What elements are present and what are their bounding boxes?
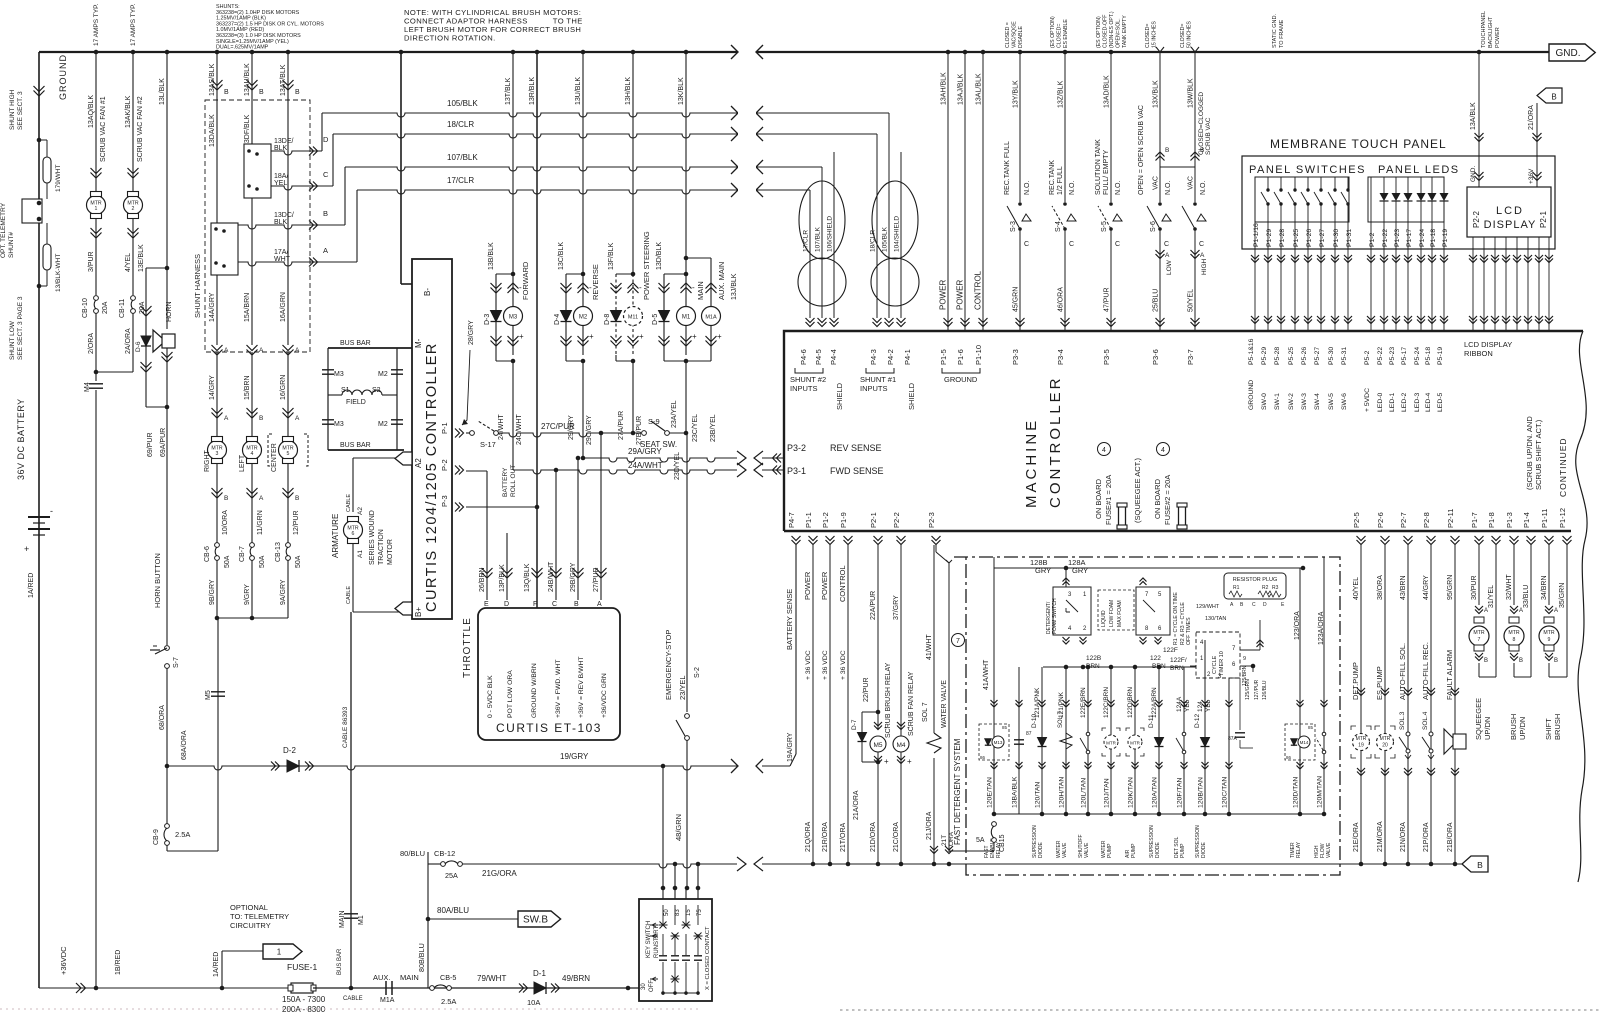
svg-text:A: A (1554, 608, 1558, 614)
svg-text:LEFT: LEFT (239, 454, 246, 472)
svg-text:M3: M3 (334, 421, 344, 428)
circuit breaker CB-10 (94, 296, 99, 301)
svg-text:69A/PUR: 69A/PUR (160, 428, 167, 457)
svg-text:P2-5: P2-5 (1352, 512, 1361, 528)
svg-text:1B/RED: 1B/RED (115, 950, 122, 975)
svg-text:GRY: GRY (1072, 566, 1088, 575)
svg-text:13K/BLK: 13K/BLK (678, 77, 685, 105)
svg-text:122F/: 122F/ (1170, 657, 1187, 664)
svg-text:M13: M13 (994, 740, 1003, 745)
svg-text:CLOSED=CLOGGED: CLOSED=CLOGGED (1198, 92, 1205, 155)
svg-text:+36V = REV B/WHT: +36V = REV B/WHT (578, 656, 585, 718)
svg-text:38/ORA: 38/ORA (1377, 575, 1384, 600)
svg-text:29A/GRY: 29A/GRY (628, 447, 662, 456)
svg-text:-: - (907, 723, 910, 732)
bracket SHUNT #2 INPUTS (795, 368, 823, 373)
motor M2 (582, 274, 584, 355)
motor MTR|5 CENTER (279, 441, 298, 460)
wire 13DE/BLK to D (271, 151, 322, 155)
svg-text:14/GRY: 14/GRY (209, 375, 216, 400)
svg-text:B: B (1519, 658, 1523, 664)
svg-text:35/GRN: 35/GRN (1559, 583, 1566, 608)
svg-text:13W/BLK: 13W/BLK (1188, 78, 1195, 108)
wire vac switch link (1160, 166, 1195, 168)
wire 44/GRY AUTO-FILL REC. (1430, 545, 1432, 864)
svg-text:SHIELD: SHIELD (835, 382, 844, 410)
telemetry arrow terminal 1 (221, 951, 223, 988)
svg-text:A: A (295, 415, 300, 422)
svg-text:A1: A1 (357, 550, 364, 558)
svg-text:STATIC GND.: STATIC GND. (1272, 14, 1278, 48)
svg-text:DIODE: DIODE (1155, 842, 1161, 859)
wire 41/WHT water valve (933, 545, 935, 733)
svg-text:S-7: S-7 (173, 657, 180, 668)
switch S vac lever (1193, 202, 1197, 206)
wire 13U/BLK (581, 50, 586, 55)
svg-text:122E/BRN: 122E/BRN (1080, 687, 1087, 718)
svg-text:P1-23: P1-23 (1394, 229, 1401, 247)
svg-text:LED-1: LED-1 (1389, 393, 1396, 412)
relay coil M4 (897, 722, 905, 726)
svg-text:GROUND: GROUND (1248, 380, 1255, 410)
svg-text:P5-28: P5-28 (1274, 347, 1281, 365)
svg-text:13X/BLK: 13X/BLK (1153, 80, 1160, 108)
svg-text:44/GRY: 44/GRY (1423, 575, 1430, 600)
svg-text:LED-4: LED-4 (1425, 393, 1432, 412)
wire 106/SHIELD shield (833, 152, 835, 318)
wire 107/BLK horizontal (344, 167, 346, 225)
svg-text:P5-19: P5-19 (1437, 347, 1444, 365)
svg-text:D-4: D-4 (554, 314, 561, 325)
bus bar right rail (396, 348, 398, 450)
diode D-6 (141, 336, 151, 346)
svg-text:21N/ORA: 21N/ORA (1400, 822, 1407, 852)
svg-text:13L/BLK: 13L/BLK (159, 78, 166, 105)
svg-text:PANEL LEDS: PANEL LEDS (1378, 164, 1460, 176)
svg-text:OPEN=SOL.: OPEN=SOL. (1116, 18, 1122, 48)
motor MTR|7 pair 30/PUR/31/YEL (1478, 545, 1480, 605)
svg-text:SW.B: SW.B (523, 915, 548, 926)
note circled 7 (952, 634, 965, 647)
fast detergent component 120K/TAN (1134, 667, 1136, 814)
svg-text:A: A (224, 347, 229, 354)
svg-text:SHIELD: SHIELD (907, 382, 916, 410)
svg-text:16A/GRN: 16A/GRN (280, 292, 287, 322)
svg-text:M4: M4 (84, 382, 91, 392)
svg-text:69/PUR: 69/PUR (147, 432, 154, 457)
svg-text:CURTIS ET-103: CURTIS ET-103 (496, 721, 602, 735)
svg-text:POWER: POWER (956, 280, 965, 310)
lcd ribbon wires down (1472, 237, 1474, 331)
wire M1A coil 13J/BLK (686, 257, 711, 259)
fast detergent component 120L/TAN (1087, 667, 1089, 814)
svg-text:5: 5 (287, 451, 290, 457)
telemetry shunt box (46, 183, 48, 199)
svg-text:13U/BLK: 13U/BLK (575, 77, 582, 105)
svg-text:123A/ORA: 123A/ORA (1318, 611, 1325, 645)
svg-text:ON BOARD: ON BOARD (1153, 478, 1162, 519)
diode D-8 (611, 311, 622, 322)
svg-text:S-9: S-9 (648, 417, 660, 426)
svg-text:A: A (224, 415, 229, 422)
svg-text:13/BLK-WHT: 13/BLK-WHT (55, 254, 62, 292)
svg-text:5A: 5A (976, 837, 985, 844)
svg-text:CABLE: CABLE (346, 494, 352, 512)
svg-text:P1-7: P1-7 (1470, 512, 1479, 528)
svg-text:D: D (504, 601, 509, 608)
svg-text:KEY SWITCH: KEY SWITCH (646, 921, 652, 958)
wire 13H/BLK (631, 50, 636, 55)
svg-text:B: B (224, 495, 228, 502)
wire 16/GRN brush motor (287, 352, 289, 438)
svg-text:FAST DETERGENT SYSTEM: FAST DETERGENT SYSTEM (953, 738, 962, 845)
svg-text:SCRUB VAC: SCRUB VAC (1205, 117, 1212, 155)
svg-text:+36V: +36V (1528, 168, 1535, 184)
svg-text:R2: R2 (1262, 585, 1269, 591)
svg-text:CB-11: CB-11 (119, 299, 126, 318)
fast detergent component 13BA/BLK (1018, 667, 1020, 814)
switch S-17 battery roll out (470, 431, 475, 436)
wire 47/PUR (1110, 229, 1112, 330)
motor M3 (512, 274, 514, 355)
svg-text:S-17: S-17 (480, 440, 496, 449)
svg-text:MAX FOAM: MAX FOAM (1117, 600, 1123, 627)
svg-text:13AQ/BLK: 13AQ/BLK (88, 95, 95, 128)
svg-text:+: + (907, 757, 912, 766)
svg-text:D-11: D-11 (1148, 714, 1155, 728)
detergent/foam switch 2 (1136, 587, 1170, 635)
svg-text:MACHINE: MACHINE (1023, 418, 1040, 508)
svg-text:P3-3: P3-3 (1011, 349, 1020, 365)
svg-text:-: - (692, 283, 695, 292)
svg-text:SW-2: SW-2 (1288, 393, 1295, 410)
svg-text:P3-7: P3-7 (1186, 349, 1195, 365)
svg-text:3/PUR: 3/PUR (88, 251, 95, 272)
svg-text:D-3: D-3 (484, 314, 491, 325)
fast detergent component 120M/TAN (1323, 557, 1325, 814)
svg-text:18/CLR: 18/CLR (870, 230, 877, 252)
svg-text:P5-31: P5-31 (1341, 347, 1348, 365)
svg-text:PANEL SWITCHES: PANEL SWITCHES (1249, 164, 1366, 176)
svg-text:1A/RED: 1A/RED (213, 952, 220, 977)
wire 18/CLR shield (876, 134, 878, 318)
wire P-3 to 13Q/BLK (466, 506, 537, 508)
svg-text:SHIFT: SHIFT (1544, 718, 1553, 740)
wire 21/ORA from B (1536, 103, 1538, 187)
svg-text:2A/ORA: 2A/ORA (125, 328, 132, 354)
svg-text:YEL: YEL (274, 180, 287, 187)
svg-text:13AL/BLK: 13AL/BLK (976, 73, 983, 105)
svg-text:MTR: MTR (1130, 741, 1140, 746)
svg-text:TANK EMPTY: TANK EMPTY (1122, 15, 1128, 48)
svg-text:VALVE: VALVE (1326, 842, 1332, 858)
svg-text:P1-9: P1-9 (839, 512, 848, 528)
motor M11 (632, 274, 634, 355)
svg-text:B: B (1165, 147, 1169, 154)
svg-text:A: A (259, 347, 264, 354)
svg-text:MAIN: MAIN (400, 973, 419, 982)
svg-text:24/WHT: 24/WHT (498, 414, 505, 440)
svg-text:P2-1: P2-1 (1539, 211, 1548, 228)
svg-text:FULL/ EMPTY: FULL/ EMPTY (1103, 150, 1110, 195)
svg-text:20: 20 (1382, 743, 1388, 749)
wire 21J/ORA (933, 758, 935, 864)
shunt harness dashed box (205, 100, 310, 352)
wire 38/ORA ES PUMP (1384, 545, 1386, 864)
svg-text:13AD/BLK: 13AD/BLK (1104, 75, 1111, 108)
solenoid SOL.4 (1429, 732, 1433, 736)
bracket SHUNT #1 INPUTS (866, 368, 894, 373)
svg-text:PUMP: PUMP (1180, 843, 1186, 858)
svg-text:LED-3: LED-3 (1414, 393, 1421, 412)
wire S-2 to key switch 48/GRN (686, 740, 688, 888)
fast detergent component 120/TAN (1041, 667, 1043, 814)
svg-text:SOL.3: SOL.3 (1399, 711, 1406, 730)
fast detergent component 120D/TAN (1299, 568, 1301, 814)
svg-text:87A: 87A (1228, 736, 1238, 742)
wire 12/PUR (287, 464, 289, 543)
svg-text:INPUTS: INPUTS (790, 384, 818, 393)
svg-text:A: A (597, 601, 602, 608)
svg-text:17/CLR: 17/CLR (803, 230, 810, 252)
wire 13K/BLK (684, 50, 689, 55)
svg-text:POWER: POWER (1495, 27, 1501, 48)
svg-text:C: C (1024, 241, 1029, 248)
svg-text:D-6: D-6 (135, 341, 142, 352)
svg-text:P1-29: P1-29 (1266, 229, 1273, 247)
svg-text:13BA/BLK: 13BA/BLK (1012, 776, 1019, 808)
svg-text:M11: M11 (628, 315, 638, 321)
svg-text:N.O.: N.O. (1165, 181, 1172, 195)
svg-text:P2-2: P2-2 (892, 512, 901, 528)
svg-text:85: 85 (1002, 725, 1008, 730)
svg-text:P-3: P-3 (440, 495, 449, 507)
svg-text:POWER: POWER (820, 571, 829, 600)
membrane panel wires down to controller (1254, 222, 1256, 249)
fast detergent bottom bus (994, 813, 1324, 815)
terminal B top right (1537, 88, 1562, 103)
wire 23/YEL emergency stop (686, 433, 688, 712)
svg-text:+: + (519, 332, 524, 341)
svg-text:122B: 122B (1086, 655, 1101, 662)
on-board fuse 2 note (1157, 443, 1170, 456)
svg-text:80B/BLU: 80B/BLU (417, 943, 426, 972)
svg-text:MTR: MTR (1508, 630, 1519, 636)
svg-text:S-5: S-5 (1101, 221, 1108, 232)
svg-text:4: 4 (1161, 447, 1165, 454)
svg-text:21/ORA: 21/ORA (1528, 105, 1535, 130)
circuit breaker CB-7 50A (250, 543, 255, 548)
wire 68/ORA (166, 668, 168, 824)
wire 11/GRN (251, 464, 253, 543)
horn SPK1 (162, 334, 175, 348)
motor M1 main contactor coil (664, 273, 686, 275)
svg-text:P1-1/16: P1-1/16 (1253, 223, 1260, 247)
fast detergent component 120A/TAN (1158, 667, 1160, 814)
svg-text:VALVE: VALVE (1062, 842, 1068, 858)
svg-text:P4-5: P4-5 (814, 349, 823, 365)
svg-text:LIQUID: LIQUID (1101, 610, 1107, 627)
connector break on ground bus (731, 45, 738, 59)
svg-text:A2: A2 (357, 507, 364, 515)
panel switch elements (1267, 177, 1269, 190)
solenoid SOL 7 (927, 733, 941, 753)
svg-text:P2-11: P2-11 (1446, 509, 1455, 528)
svg-text:P5-27: P5-27 (1314, 347, 1321, 365)
svg-text:25/BLU: 25/BLU (1153, 289, 1160, 312)
svg-text:80/BLU: 80/BLU (400, 849, 425, 858)
svg-text:SCRUB VAC FAN #2: SCRUB VAC FAN #2 (137, 96, 144, 162)
svg-text:32/WHT: 32/WHT (1506, 574, 1513, 600)
svg-text:68A/ORA: 68A/ORA (181, 730, 188, 760)
junction 19/GRY to key switch (661, 764, 666, 769)
svg-text:C: C (1199, 241, 1204, 248)
svg-text:+ 36 VDC: + 36 VDC (805, 650, 812, 680)
svg-text:68/ORA: 68/ORA (159, 705, 166, 730)
svg-text:CB-5: CB-5 (440, 973, 456, 982)
svg-text:+36/VDC GRN: +36/VDC GRN (601, 673, 608, 718)
svg-text:B+: B+ (414, 607, 423, 617)
svg-text:P1-19: P1-19 (1442, 229, 1449, 247)
wire 21G/ORA CB-12 row (427, 852, 429, 988)
svg-text:DIRECTION ROTATION.: DIRECTION ROTATION. (404, 34, 496, 43)
wire main ground bus (39, 51, 737, 53)
svg-text:23/YEL: 23/YEL (678, 675, 687, 700)
svg-text:120H/TAN: 120H/TAN (1059, 777, 1066, 808)
circuit breaker CB-13 50A (286, 543, 291, 548)
svg-text:LOW: LOW (1166, 259, 1173, 275)
svg-text:OFF: OFF (649, 980, 655, 992)
svg-text:4/YEL: 4/YEL (125, 253, 132, 272)
svg-text:CB-6: CB-6 (204, 546, 211, 562)
svg-text:M3: M3 (509, 315, 518, 321)
wire 27/PUR throttle A (600, 433, 602, 600)
svg-text:50A: 50A (259, 555, 266, 568)
svg-text:+36VDC: +36VDC (59, 946, 68, 975)
svg-text:D-7: D-7 (851, 719, 858, 730)
svg-text:120B/TAN: 120B/TAN (1198, 777, 1205, 808)
svg-text:D-2: D-2 (283, 746, 296, 755)
svg-text:LED-0: LED-0 (1377, 393, 1384, 412)
contact M1A aux main (385, 981, 387, 995)
svg-text:21B/ORA: 21B/ORA (1447, 822, 1454, 852)
svg-text:122D/BRN: 122D/BRN (1127, 687, 1134, 718)
svg-text:PUMP: PUMP (1131, 843, 1137, 858)
svg-text:1A/RED: 1A/RED (28, 573, 35, 598)
svg-text:80A/BLU: 80A/BLU (437, 906, 469, 915)
svg-text:RIGHT: RIGHT (204, 450, 211, 473)
svg-text:+ 36 VDC: + 36 VDC (822, 650, 829, 680)
svg-text:REC.TANK: REC.TANK (1049, 160, 1056, 195)
svg-text:25A: 25A (445, 871, 458, 880)
svg-text:AUTO-FILL SOL.: AUTO-FILL SOL. (1398, 643, 1407, 700)
contact 87A (1235, 732, 1245, 734)
branch 13B/BLK (496, 273, 513, 275)
svg-text:120M/TAN: 120M/TAN (1317, 776, 1324, 808)
svg-text:P3-2: P3-2 (787, 443, 806, 453)
wire 128B/128A GRY top rail (994, 567, 1303, 569)
svg-text:50/YEL: 50/YEL (1188, 289, 1195, 312)
svg-text:S-2: S-2 (694, 667, 701, 678)
svg-text:+: + (692, 332, 697, 341)
svg-text:15: 15 (686, 909, 692, 916)
wire 14/GRY brush motor (216, 352, 218, 438)
motor MTR|9 pair 34/BRN/35/GRN (1548, 545, 1550, 605)
svg-text:M1: M1 (682, 315, 691, 321)
svg-text:SW-5: SW-5 (1328, 393, 1335, 410)
svg-text:(NON-ES OPT.): (NON-ES OPT.) (1109, 11, 1115, 48)
svg-text:BUS BAR: BUS BAR (340, 442, 371, 449)
wire 18A/YEL to C (271, 186, 333, 190)
svg-text:50 INCHES: 50 INCHES (1187, 21, 1193, 48)
wire 25/BLU (1159, 229, 1161, 330)
svg-text:A: A (259, 495, 264, 502)
wire 105/BLK shield (888, 113, 890, 318)
key switch wires (662, 888, 664, 899)
svg-text:A: A (1200, 252, 1205, 259)
svg-text:MEMBRANE TOUCH PANEL: MEMBRANE TOUCH PANEL (1270, 137, 1447, 151)
svg-text:POWER: POWER (939, 280, 948, 310)
svg-text:13B/BLK: 13B/BLK (488, 242, 495, 270)
wire 17/CLR horizontal (356, 190, 358, 262)
svg-text:13AJ/BLK: 13AJ/BLK (958, 74, 965, 105)
switch column 13Z/BLK S-4 (1063, 50, 1068, 55)
svg-text:SOL 7: SOL 7 (1058, 711, 1064, 728)
lcd display box (1467, 187, 1551, 237)
svg-text:DISPLAY: DISPLAY (1484, 219, 1537, 231)
svg-text:13DC/: 13DC/ (274, 212, 294, 219)
wire 19A/GRY to machine controller (762, 765, 790, 767)
bus bar top rail (328, 347, 412, 349)
svg-text:REVERSE: REVERSE (591, 264, 600, 300)
fault alarm speaker (1453, 734, 1466, 749)
svg-text:120/TAN: 120/TAN (1035, 782, 1042, 808)
svg-text:P1-28: P1-28 (1279, 229, 1286, 247)
svg-text:OFF TIMES: OFF TIMES (1186, 617, 1192, 645)
svg-text:SHUNT#: SHUNT# (8, 232, 15, 258)
svg-text:CABLE: CABLE (343, 996, 363, 1002)
svg-text:MTR: MTR (1356, 736, 1367, 742)
svg-text:THROTTLE: THROTTLE (462, 617, 473, 678)
svg-text:120J/TAN: 120J/TAN (1104, 778, 1111, 808)
svg-text:+: + (884, 757, 889, 766)
svg-text:106/SHIELD: 106/SHIELD (827, 216, 834, 252)
contact M1 main (344, 913, 358, 915)
contact M2 lower (391, 419, 403, 421)
traction armature wire from A2 (353, 457, 404, 459)
svg-text:P1-4: P1-4 (1522, 512, 1531, 528)
diode D-3 (491, 311, 502, 322)
svg-text:43/BRN: 43/BRN (1400, 575, 1407, 600)
svg-text:BATTERY SENSE: BATTERY SENSE (785, 589, 794, 650)
relay coil M5 (874, 722, 882, 726)
wire 13DC/BLK to B (238, 225, 345, 229)
svg-text:TO: TELEMETRY: TO: TELEMETRY (230, 912, 289, 921)
svg-text:B-: B- (423, 288, 432, 296)
chevron on battery feed (34, 86, 45, 92)
svg-text:X = CLOSED CONTACT: X = CLOSED CONTACT (705, 926, 711, 990)
svg-text:B: B (574, 601, 579, 608)
svg-text:ES PUMP: ES PUMP (1375, 666, 1384, 700)
svg-text:21G/ORA: 21G/ORA (482, 869, 517, 878)
fuse on-board 1 (1119, 506, 1126, 526)
svg-text:CB-10: CB-10 (82, 298, 89, 318)
svg-text:BLK: BLK (274, 145, 288, 152)
svg-text:120C/TAN: 120C/TAN (1222, 777, 1229, 808)
svg-text:41A/WHT: 41A/WHT (983, 659, 990, 690)
svg-text:124: 124 (1197, 701, 1204, 712)
svg-text:121A/PNK: 121A/PNK (1034, 687, 1041, 718)
